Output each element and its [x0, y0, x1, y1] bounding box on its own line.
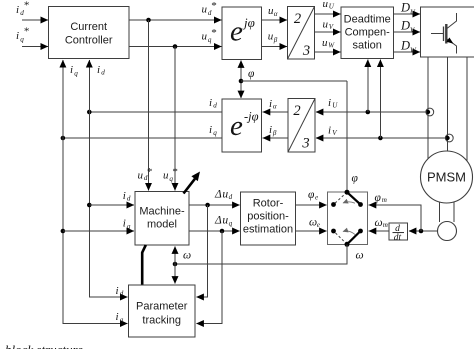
junction: i_q node under current controller [61, 136, 66, 141]
svg-text:D: D [400, 1, 410, 15]
wire: u_W to Deadtime Compensation [315, 51, 341, 53]
label: phi_e [308, 189, 318, 201]
wire: i_V tap up into Deadtime Compensation [379, 60, 381, 139]
svg-text:q: q [127, 223, 131, 231]
label: u_q* at machine model [163, 166, 178, 183]
svg-text:i: i [209, 97, 212, 109]
wire: omega_m measured speed into selector switch [369, 230, 389, 232]
svg-text:i: i [328, 97, 331, 109]
wire: inverter phase W output down to PMSM [466, 57, 468, 161]
wire: u_d* from Current Controller to e^jphi [129, 19, 222, 21]
svg-text:u: u [138, 170, 144, 182]
wire: D_V gate signal to inverter [394, 31, 421, 33]
svg-text:W: W [328, 42, 335, 50]
svg-text:i: i [123, 218, 126, 230]
wire: i_d* setpoint into Current Controller [22, 19, 48, 21]
label: i_q at parameter tracking [116, 311, 124, 324]
junction: Delta u_d branch node [205, 203, 210, 208]
block: d/dt differentiator [389, 223, 408, 243]
svg-text:β: β [273, 36, 278, 44]
wire: D_U gate signal to inverter [394, 13, 421, 15]
junction: i_q branch to machine model [61, 229, 66, 234]
wire: u_alpha from e^jphi to 2/3 transform [262, 19, 288, 21]
junction: i_d branch to machine model [87, 203, 92, 208]
svg-text:q: q [74, 69, 78, 77]
svg-text:estimation: estimation [243, 224, 293, 236]
label: u_d* [202, 0, 217, 17]
svg-text:i: i [16, 4, 19, 16]
label: i_d at parameter tracking [116, 285, 124, 298]
svg-text:u: u [163, 170, 169, 182]
svg-text:*: * [23, 0, 29, 12]
block: Machine model [135, 192, 189, 246]
wire: Delta u_q down and left into Parameter tracking [196, 231, 222, 324]
svg-text:3: 3 [301, 136, 309, 152]
wire: omega vertical into Machine model and Parameter tracking [174, 246, 176, 283]
svg-text:Compen-: Compen- [345, 27, 391, 39]
svg-text:φ: φ [352, 173, 359, 185]
wire: Delta u_d from Machine model to Rotor position estimation [189, 204, 240, 206]
circle: PMSM motor [421, 151, 473, 203]
label: D_W [400, 39, 417, 55]
wire: i_beta from 2/3 transform to e^-jphi [263, 137, 288, 139]
block: Rotor position estimation [241, 192, 296, 245]
svg-text:model: model [147, 219, 177, 231]
wire: i_alpha from 2/3 transform to e^-jphi [263, 111, 288, 113]
svg-text:dt: dt [394, 233, 402, 243]
svg-text:e: e [317, 221, 320, 229]
wire: phi vertical down to selector switch [346, 81, 348, 192]
svg-text:Machine-: Machine- [139, 206, 185, 218]
svg-text:d: d [127, 195, 131, 203]
junction: i_V tap to deadtime compensation [378, 136, 383, 141]
svg-text:3: 3 [302, 43, 310, 59]
svg-text:Parameter: Parameter [136, 301, 188, 313]
wire: phi angle vertical between e^jphi and e^-jphi [240, 60, 242, 98]
svg-text:*: * [23, 25, 29, 37]
label: phi at transforms [248, 68, 255, 80]
svg-text:*: * [146, 166, 152, 178]
label: D_V [400, 19, 415, 35]
svg-text:block structure: block structure [5, 342, 83, 349]
svg-text:i: i [209, 124, 212, 136]
svg-text:*: * [172, 166, 178, 178]
label: i_d under controller [97, 64, 105, 77]
label: Delta u_q [214, 214, 233, 227]
svg-text:q: q [213, 129, 217, 137]
svg-text:jφ: jφ [242, 15, 255, 30]
svg-text:d: d [101, 69, 105, 77]
wire: phi_e estimate into selector switch [296, 204, 327, 206]
svg-text:u: u [222, 214, 228, 226]
label: i_d at machine model [123, 190, 131, 203]
svg-text:i: i [123, 190, 126, 202]
svg-text:ω: ω [183, 250, 191, 262]
svg-text:u: u [323, 19, 329, 31]
label: i_q under controller [70, 64, 78, 77]
block: 2/3 phase transform (voltages) [288, 7, 315, 60]
svg-text:i: i [70, 64, 73, 76]
svg-text:Controller: Controller [65, 35, 113, 47]
circle: position encoder on shaft [438, 222, 457, 241]
wire: i_d into Machine model [89, 204, 134, 206]
label: omega at machine model [183, 250, 191, 262]
svg-text:d: d [213, 101, 217, 109]
wire: encoder output to d/dt [409, 230, 438, 232]
svg-text:sation: sation [353, 40, 382, 52]
junction: i_d node under current controller [87, 110, 92, 115]
block: Parameter tracking [129, 285, 196, 337]
svg-text:V: V [329, 23, 335, 31]
svg-text:i: i [328, 125, 331, 137]
label: i_beta [269, 124, 277, 137]
svg-text:φ: φ [375, 192, 382, 204]
wire: i_U measured current to 2/3 transform [316, 111, 427, 113]
block: inverter (IGBT bridge) [421, 7, 474, 57]
label: i_q* [16, 25, 29, 43]
svg-text:V: V [332, 129, 338, 137]
wire: phi_m measured angle into selector switch [369, 205, 421, 231]
svg-text:u: u [268, 31, 274, 43]
wire: i_d feedback row from e^-jphi [89, 111, 222, 113]
svg-text:i: i [269, 98, 272, 110]
transistor: IGBT symbol inside inverter [431, 13, 457, 54]
svg-text:d: d [229, 193, 233, 201]
svg-text:m: m [382, 196, 387, 204]
svg-text:tracking: tracking [142, 315, 181, 327]
wire: i_q* setpoint into Current Controller [22, 46, 48, 48]
wire: omega_e estimate into selector switch [296, 230, 327, 232]
junction: Delta u_q branch node [220, 229, 225, 234]
junction: omega node [173, 262, 178, 267]
junction: u_q* branch node [173, 44, 178, 49]
wire: u_V to Deadtime Compensation [315, 31, 341, 33]
svg-text:D: D [400, 19, 410, 33]
block: 2/3 phase transform (currents) [288, 99, 315, 153]
block: rotation transform e^jphi [222, 7, 262, 60]
block: Deadtime Compensation [341, 7, 394, 59]
label: i_alpha [269, 98, 277, 110]
svg-text:u: u [202, 4, 208, 16]
wire: inverter phase U output down to PMSM [427, 57, 429, 159]
wire: motor shaft to encoder [440, 202, 455, 223]
label: i_q feedback row [209, 124, 217, 137]
label: i_q at machine model [123, 218, 131, 231]
block: Current Controller U1 [49, 7, 130, 59]
label: Delta u_d [214, 189, 233, 202]
svg-text:u: u [323, 0, 329, 10]
label: omega at switch [356, 250, 364, 262]
svg-text:ω: ω [356, 250, 364, 262]
svg-text:Δ: Δ [214, 214, 222, 226]
svg-text:φ: φ [248, 68, 255, 80]
label: omega_m [375, 217, 388, 229]
svg-text:φ: φ [308, 189, 315, 201]
svg-text:ω: ω [375, 217, 383, 229]
label: i_d* [16, 0, 29, 17]
wire: phi horizontal run to switch column [241, 80, 347, 82]
svg-text:i: i [16, 30, 19, 42]
caption: figure caption fragment [5, 342, 83, 349]
svg-text:i: i [97, 64, 100, 76]
label: phi_m [375, 192, 387, 204]
svg-text:2: 2 [294, 11, 301, 27]
svg-text:U: U [410, 8, 416, 16]
wire: i_q feedback row from e^-jphi [63, 137, 222, 139]
block: selector switch box [328, 192, 368, 245]
svg-text:PMSM: PMSM [427, 170, 466, 185]
switch: phi selector (top) [331, 190, 363, 207]
svg-text:u: u [322, 37, 328, 49]
wire: Delta u_d down and left into Parameter tracking [196, 205, 207, 297]
wire: i_V measured current to 2/3 transform [316, 137, 447, 139]
wire: i_U tap up into Deadtime Compensation [367, 60, 369, 113]
svg-text:position-: position- [247, 211, 289, 223]
svg-text:*: * [211, 0, 217, 12]
component: current sensor on phase V [445, 134, 453, 142]
svg-text:i: i [269, 124, 272, 136]
wire: D_W gate signal to inverter [394, 51, 421, 53]
svg-text:Current: Current [70, 21, 107, 33]
label: i_d feedback row [209, 97, 217, 109]
svg-text:q: q [229, 219, 233, 227]
svg-text:m: m [383, 221, 388, 229]
svg-text:u: u [222, 189, 228, 201]
arrow: adjustable-model bold arrow [184, 172, 201, 194]
svg-text:*: * [211, 27, 217, 39]
wire: i_q up into Current Controller [62, 60, 64, 138]
junction: u_d* branch node [146, 18, 151, 23]
label: u_q* [202, 27, 217, 44]
svg-text:e: e [315, 193, 318, 201]
svg-text:i: i [116, 285, 119, 297]
label: u_d* at machine model [138, 166, 153, 182]
svg-text:e: e [230, 16, 243, 48]
label: u_W [322, 37, 335, 50]
label: phi at switch [352, 173, 359, 185]
svg-text:Rotor-: Rotor- [253, 198, 284, 210]
svg-text:Deadtime: Deadtime [344, 14, 391, 26]
label: i_V [328, 125, 338, 138]
wire: u_beta from e^jphi to 2/3 transform [262, 46, 288, 48]
block: rotation transform e^-jphi [222, 99, 262, 152]
switch: omega selector (bottom) [331, 229, 363, 247]
svg-text:u: u [202, 30, 208, 42]
svg-text:q: q [120, 316, 124, 324]
junction: i_U tap to deadtime compensation [366, 110, 371, 115]
svg-text:i: i [116, 311, 119, 323]
wire: inverter phase V output down to PMSM [447, 57, 449, 151]
label: i_U [328, 97, 338, 110]
wire: Delta u_q from Machine model to Rotor position estimation [189, 230, 240, 232]
label: u_U [323, 0, 335, 11]
svg-text:-jφ: -jφ [244, 110, 259, 124]
svg-text:e: e [230, 110, 243, 142]
junction: phi node [239, 79, 244, 84]
label: omega_e [309, 217, 320, 229]
label: u_beta [268, 31, 278, 44]
svg-text:U: U [332, 102, 338, 110]
svg-text:2: 2 [293, 103, 300, 119]
wire: i_d left vertical bus down to parameter tracking [89, 112, 127, 297]
wire: i_q into Machine model [63, 230, 134, 232]
svg-text:α: α [274, 10, 278, 18]
svg-text:W: W [410, 46, 417, 54]
svg-text:d: d [120, 290, 124, 298]
wire: bold parameter update from Parameter tracking to Machine model [142, 245, 146, 285]
junction: encoder signal branch [419, 229, 424, 234]
label: u_V [323, 19, 335, 32]
wire: u_q* from Current Controller to e^jphi [129, 46, 222, 48]
label: D_U [400, 1, 416, 17]
wire: omega from switch down and left [175, 244, 347, 264]
component: current sensor on phase U [426, 108, 434, 116]
wire: u_q* vertical down into Machine model [174, 47, 176, 191]
svg-text:α: α [273, 102, 277, 110]
svg-text:V: V [410, 26, 415, 34]
wire: i_q left vertical bus down to parameter tracking [63, 138, 128, 324]
wire: u_U to Deadtime Compensation [315, 13, 341, 15]
label: u_alpha [268, 5, 278, 18]
svg-text:U: U [329, 3, 335, 11]
wire: i_d up into Current Controller [88, 60, 90, 112]
wire: u_d* vertical down into Machine model [148, 20, 150, 191]
svg-text:D: D [400, 39, 410, 53]
svg-text:Δ: Δ [214, 189, 222, 201]
svg-text:β: β [272, 129, 277, 137]
